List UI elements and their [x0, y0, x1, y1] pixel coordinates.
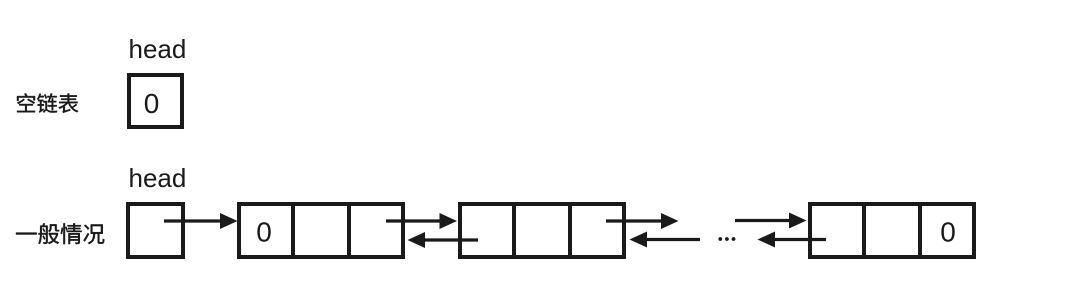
node 3 (last node, 3 cells, value 0) [810, 202, 974, 259]
wire: node 3 prev toward ellipsis [758, 232, 827, 248]
row label: 空链表 (empty linked list) [17, 93, 78, 113]
ellipsis between nodes [718, 237, 735, 241]
wire: node 1 next to node 2 [386, 213, 457, 229]
wire: ellipsis next to node 3 [735, 213, 807, 229]
wire: ellipsis prev toward node 2 [630, 232, 701, 248]
row label: 一般情况 (general case) [16, 223, 104, 244]
svg-text:0: 0 [144, 88, 160, 119]
node 2 (3 cells) [460, 202, 624, 259]
wire: head to node 1 [164, 213, 238, 229]
head node box (empty list) [129, 75, 182, 127]
svg-text:0: 0 [256, 217, 272, 248]
head pointer box (general case) [128, 204, 183, 257]
svg-text:head: head [129, 163, 187, 193]
svg-text:0: 0 [940, 217, 956, 248]
wire: node 2 prev to node 1 [408, 232, 479, 248]
svg-text:head: head [129, 34, 187, 64]
node 1 (3 cells, value 0) [239, 202, 403, 259]
wire: node 2 next toward ellipsis [606, 213, 679, 229]
